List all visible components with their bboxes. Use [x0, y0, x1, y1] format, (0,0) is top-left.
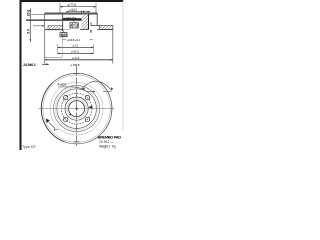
- hat outer faint ring: [55, 87, 98, 130]
- frame right border (faint): [122, 1, 125, 130]
- svg-text:Th. 94 2 ––: Th. 94 2 ––: [99, 140, 114, 144]
- ext line left x60: [59, 3, 61, 13]
- hub top surface line: [45, 12, 98, 14]
- ext line right x96: [95, 3, 97, 13]
- bolt hole top-left: [63, 96, 67, 100]
- hatch band A: [48, 26, 63, 30]
- bore wall vertical x62.7: [62, 14, 64, 31]
- small arrow right near hole: [87, 91, 112, 93]
- svg-text:4-⌀6.6: 4-⌀6.6: [58, 83, 67, 87]
- hatch band C friction ring: [100, 25, 113, 29]
- svg-text:20.6: 20.6: [27, 10, 31, 17]
- step line to ring: [91, 24, 100, 26]
- ring outer edge vertical: [112, 25, 114, 63]
- left vertical dim line: [29, 9, 31, 43]
- svg-text:⌀ 159.8: ⌀ 159.8: [71, 63, 80, 67]
- svg-text:⌀ 65.5: ⌀ 65.5: [71, 49, 80, 53]
- hat wall vertical x97.2: [96, 13, 98, 25]
- bolt circle dashed: [61, 93, 92, 124]
- hatch band B small upper: [82, 14, 89, 29]
- short connector line: [45, 57, 62, 59]
- extra ring arc: [50, 82, 103, 135]
- left small ref line: [33, 25, 45, 27]
- hub second line: [31, 13, 97, 15]
- svg-text:⌀ 64.8 +0.1: ⌀ 64.8 +0.1: [67, 38, 81, 42]
- hat circle: [57, 89, 97, 129]
- small blob lower-left: [69, 114, 71, 116]
- left arrow to edge: [42, 63, 49, 65]
- svg-text:⌀ 10: ⌀ 10: [73, 43, 79, 47]
- svg-text:Type DF: Type DF: [22, 145, 36, 149]
- horizontal centerline: [39, 108, 115, 110]
- dim line d77.5: [60, 6, 96, 8]
- rotation arrowhead: [46, 119, 50, 123]
- svg-text:BREMBO PAD: BREMBO PAD: [98, 134, 122, 139]
- band A bottom line: [45, 29, 63, 31]
- bolt hole bottom-left: [63, 117, 67, 121]
- svg-text:⌀ 64.8 ±0.1: ⌀ 64.8 ±0.1: [64, 16, 77, 20]
- outer circle darker lower-left arc: [41, 84, 64, 142]
- band B bottom line: [80, 29, 89, 31]
- bore circle: [69, 101, 85, 117]
- center ticks: [74, 73, 80, 141]
- hub circle: [65, 97, 88, 120]
- mount face line right thick: [63, 18, 89, 20]
- dim arrowhead right of center: [88, 106, 92, 109]
- frame top border: [20, 0, 124, 2]
- leader from top right: [82, 81, 112, 90]
- svg-text:⌀ 64.2: ⌀ 64.2: [69, 8, 77, 12]
- outer circle: [41, 73, 112, 144]
- svg-text:24.5±0.1: 24.5±0.1: [23, 63, 36, 67]
- svg-text:5.4: 5.4: [27, 29, 31, 34]
- rotation arrow tail: [49, 122, 59, 131]
- inner light circle: [67, 99, 86, 118]
- tolerance box 1: [70, 23, 78, 28]
- bolt hole bottom-right: [85, 117, 89, 121]
- tolerance box 2: [60, 33, 67, 37]
- vertical centerline: [76, 66, 78, 147]
- bolt hole top-right: [85, 96, 89, 100]
- center dot: [76, 108, 78, 110]
- svg-text:⌀ 77.5: ⌀ 77.5: [68, 3, 77, 7]
- hat wall vertical x88.5: [88, 14, 90, 29]
- leader under text: [58, 87, 83, 89]
- ext verticals for mid dims: [57, 44, 59, 54]
- flange surface line left: [26, 19, 89, 21]
- plusminus ticks above hub: [82, 10, 84, 12]
- frame left border: [20, 0, 22, 150]
- section centerline vertical: [44, 13, 46, 63]
- swept band inner circle: [54, 86, 100, 132]
- svg-text:Weight 2 Kg: Weight 2 Kg: [99, 145, 116, 149]
- svg-text:⌀ 212: ⌀ 212: [72, 56, 80, 60]
- outer circle inner ring: [43, 75, 110, 142]
- ring bottom line: [97, 29, 113, 31]
- dim line d64.8: [66, 11, 90, 13]
